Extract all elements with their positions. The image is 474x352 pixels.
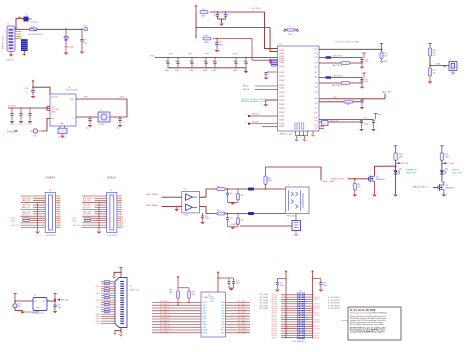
test point TP1 xyxy=(84,25,88,30)
svg-text:VDD33: VDD33 xyxy=(279,88,284,90)
svg-text:VBUS_DET: VBUS_DET xyxy=(330,120,339,122)
svg-text:GPIO08: GPIO08 xyxy=(271,308,277,310)
GPIO left rail junctions xyxy=(285,294,286,332)
svg-text:HDMI_CON: HDMI_CON xyxy=(130,289,140,291)
svg-text:TXP: TXP xyxy=(314,128,317,130)
svg-text:SD_DAT3: SD_DAT3 xyxy=(238,308,246,311)
svg-text:5V: 5V xyxy=(85,25,88,27)
svg-text:VDDIO: VDDIO xyxy=(210,299,216,301)
wire RUN to J5 xyxy=(430,64,449,67)
U4 left wires xyxy=(152,303,201,333)
svg-text:TXP: TXP xyxy=(314,72,317,74)
net label PWR IN 5V xyxy=(3,35,5,49)
svg-text:C44: C44 xyxy=(230,193,233,195)
header J5 xyxy=(449,59,457,74)
net label AUD_PWM1 xyxy=(147,193,159,196)
svg-text:D5: D5 xyxy=(26,14,29,16)
label J7 xyxy=(286,184,297,217)
ground audio ref xyxy=(174,206,179,211)
svg-text:GP8: GP8 xyxy=(221,324,224,326)
power flag osc xyxy=(13,294,17,304)
svg-text:C11: C11 xyxy=(175,60,178,62)
svg-text:GPIO04: GPIO04 xyxy=(271,299,277,301)
svg-text:SDA0: SDA0 xyxy=(11,219,15,222)
svg-text:C16: C16 xyxy=(243,60,246,62)
capacitor C4 xyxy=(215,39,223,50)
svg-text:R40: R40 xyxy=(217,186,220,188)
wire osc cap to ground xyxy=(15,308,25,314)
ground under J1 xyxy=(9,52,14,57)
svg-text:1-1734248-5: 1-1734248-5 xyxy=(46,235,56,237)
U4 right wires xyxy=(226,303,251,333)
svg-text:GPIO22: GPIO22 xyxy=(314,338,320,340)
svg-text:330R: 330R xyxy=(445,156,450,158)
svg-text:EEDO: EEDO xyxy=(243,85,249,87)
svg-text:USB_DM: USB_DM xyxy=(252,114,260,116)
svg-text:PP7: PP7 xyxy=(169,53,173,55)
net label 5V_SYS at U2 xyxy=(8,105,16,107)
ethernet pair RX block xyxy=(319,73,368,89)
net stub ACT_LED xyxy=(442,162,455,165)
svg-text:VDD33: VDD33 xyxy=(279,126,284,128)
ground under C20 xyxy=(31,96,36,98)
usb power block xyxy=(319,114,382,132)
net marker magenta xyxy=(54,299,56,301)
svg-text:D1: D1 xyxy=(68,38,71,40)
svg-text:GPIO21: GPIO21 xyxy=(271,337,277,339)
svg-text:MF-MSMF250/X: MF-MSMF250/X xyxy=(29,34,44,36)
power arrow U4 xyxy=(217,271,220,292)
TVS diode D5 xyxy=(22,17,31,22)
svg-text:VDD33: VDD33 xyxy=(279,66,284,68)
svg-text:100n: 100n xyxy=(205,218,209,220)
wire X1 out xyxy=(47,300,56,302)
HDMI net labels xyxy=(95,286,100,325)
power flag osc out xyxy=(53,294,57,302)
svg-text:5V_SYS: 5V_SYS xyxy=(252,8,261,10)
svg-text:SD_DAT3_R: SD_DAT3_R xyxy=(160,308,170,311)
svg-text:4.7u: 4.7u xyxy=(28,124,32,126)
svg-text:PP9: PP9 xyxy=(205,53,209,55)
svg-text:TXP: TXP xyxy=(314,108,317,110)
label U3 xyxy=(279,44,293,136)
svg-text:100n: 100n xyxy=(236,282,240,284)
svg-text:2.2uH: 2.2uH xyxy=(99,124,104,126)
HDMI ESD resistor pairs xyxy=(104,281,110,313)
svg-text:(SPI_MOSI): (SPI_MOSI) xyxy=(260,308,269,310)
svg-text:RT8020GQW: RT8020GQW xyxy=(66,89,78,91)
label X1 xyxy=(32,295,45,315)
ethernet LED block xyxy=(319,91,392,110)
junction at C1 xyxy=(81,28,83,30)
svg-text:GPIO07: GPIO07 xyxy=(271,306,277,308)
svg-text:3V3: 3V3 xyxy=(150,56,155,58)
svg-text:TXP: TXP xyxy=(314,53,317,55)
svg-text:1K8: 1K8 xyxy=(192,294,195,296)
svg-text:SD_DAT4_R: SD_DAT4_R xyxy=(160,311,170,314)
U4 inner pin names xyxy=(203,296,225,334)
notes link wire xyxy=(341,320,348,322)
net arrow 19M2 xyxy=(57,299,70,302)
wire gate PWR LED xyxy=(348,178,369,180)
svg-text:SD_DAT6_R: SD_DAT6_R xyxy=(160,317,170,320)
svg-text:TXP: TXP xyxy=(314,113,317,115)
connector J4 DISPLAY xyxy=(72,176,123,237)
svg-text:CAM_DP1: CAM_DP1 xyxy=(21,206,30,209)
net labels EEPROM xyxy=(243,85,250,90)
svg-text:TMDS: TMDS xyxy=(95,300,100,302)
svg-text:TRRS JACK: TRRS JACK xyxy=(286,215,297,218)
wire to X1 xyxy=(15,300,33,302)
AV jack J7 box xyxy=(286,187,310,214)
value label MF-MSMF250/X xyxy=(29,34,44,36)
svg-text:15: 15 xyxy=(121,227,123,229)
power arrow R50 R51 xyxy=(177,276,190,288)
wire Q2 drain xyxy=(375,165,397,175)
capacitor C16 xyxy=(243,57,248,72)
svg-text:R41: R41 xyxy=(241,195,244,197)
svg-text:SD_DAT4: SD_DAT4 xyxy=(238,311,246,314)
wire L2 to 3V3 node xyxy=(110,99,127,117)
svg-text:AUD_PWM1: AUD_PWM1 xyxy=(147,193,159,196)
bus entry USB DP xyxy=(245,121,277,124)
svg-text:PWR: PWR xyxy=(377,114,382,116)
svg-text:100n: 100n xyxy=(10,124,14,126)
component under U2 xyxy=(58,126,67,139)
ground under R31 xyxy=(428,76,433,84)
svg-text:GPIO15: GPIO15 xyxy=(271,324,277,326)
svg-text:GP10: GP10 xyxy=(220,330,224,332)
svg-text:SD_DAT7_R: SD_DAT7_R xyxy=(160,319,170,322)
svg-text:100n: 100n xyxy=(175,70,179,72)
op-amp A triangle xyxy=(186,194,197,200)
svg-text:SD_DAT1: SD_DAT1 xyxy=(238,303,246,306)
svg-text:VDD33: VDD33 xyxy=(279,108,284,110)
U3 right inner pin names xyxy=(314,49,317,130)
svg-text:J7: J7 xyxy=(288,184,290,186)
svg-text:100n: 100n xyxy=(58,307,62,309)
svg-text:1K8: 1K8 xyxy=(169,292,172,294)
TVS diode D1 xyxy=(64,29,68,44)
net label 3V3 rail xyxy=(150,56,155,58)
svg-text:DRIVEN EXTERNALLY. NOTE 4: DRIVEN EXTERNALLY. NOTE 4 xyxy=(241,100,267,103)
oscillator X1 box xyxy=(33,298,47,311)
svg-text:TXP: TXP xyxy=(314,57,317,59)
svg-text:C14: C14 xyxy=(212,60,215,62)
net highlight marker xyxy=(270,59,272,64)
U4 right net labels xyxy=(238,300,246,333)
power flag +5V xyxy=(195,5,198,13)
ethernet pair TX block xyxy=(319,53,368,69)
svg-text:RUN: RUN xyxy=(436,64,441,66)
svg-text:TXP: TXP xyxy=(314,120,317,122)
svg-text:DNP: DNP xyxy=(288,34,293,36)
svg-text:VDD33: VDD33 xyxy=(279,96,284,98)
svg-text:10u: 10u xyxy=(84,43,87,45)
svg-text:100n: 100n xyxy=(203,70,207,72)
svg-text:ACT_LED: ACT_LED xyxy=(446,162,454,165)
X1 pin marks xyxy=(34,301,46,310)
svg-text:PP10: PP10 xyxy=(233,53,238,55)
svg-text:10u: 10u xyxy=(18,306,21,308)
svg-text:TXP: TXP xyxy=(314,87,317,89)
resistor array RN1 xyxy=(270,59,278,66)
svg-text:C1: C1 xyxy=(84,39,87,41)
svg-text:ID_SD (GPIO0): ID_SD (GPIO0) xyxy=(328,303,340,305)
wire U2 FB to 3V3 xyxy=(76,98,127,100)
svg-text:OSC_CLK: OSC_CLK xyxy=(61,299,70,301)
capacitor C3 xyxy=(224,12,230,19)
capacitor C15 xyxy=(233,57,238,72)
svg-text:VDD33: VDD33 xyxy=(279,104,284,106)
svg-text:120p: 120p xyxy=(364,124,368,126)
resistor R30 xyxy=(428,48,436,57)
svg-text:DMG1012T: DMG1012T xyxy=(445,188,454,190)
IC U3 box xyxy=(278,46,320,131)
svg-text:SW1: SW1 xyxy=(33,135,37,137)
svg-text:J8: J8 xyxy=(299,291,302,293)
svg-text:GPIO16: GPIO16 xyxy=(271,326,277,328)
svg-text:100n: 100n xyxy=(233,70,237,72)
svg-text:GPIO11: GPIO11 xyxy=(271,315,277,317)
label IC1 xyxy=(183,189,190,216)
wire to jack ring xyxy=(254,188,286,213)
LED D11 xyxy=(440,168,448,174)
op-amp IC1 box xyxy=(182,191,200,213)
svg-text:R40: R40 xyxy=(217,210,220,212)
svg-text:CAM_DP2: CAM_DP2 xyxy=(21,213,30,216)
U4 left net labels xyxy=(160,300,171,333)
resistor R5 xyxy=(203,35,211,44)
svg-text:GP7: GP7 xyxy=(221,321,224,323)
svg-text:SD_DAT10: SD_DAT10 xyxy=(238,328,246,331)
svg-text:C15: C15 xyxy=(233,60,236,62)
svg-text:100n: 100n xyxy=(212,70,216,72)
svg-text:GPIO02: GPIO02 xyxy=(271,295,277,297)
svg-text:GPIO09: GPIO09 xyxy=(314,308,320,310)
svg-text:100R: 100R xyxy=(204,42,209,44)
svg-text:TMDS: TMDS xyxy=(95,314,100,316)
svg-text:PWR IN 5V DC: PWR IN 5V DC xyxy=(3,35,5,49)
wire U3 extra pin xyxy=(262,126,278,128)
svg-text:R41: R41 xyxy=(241,220,244,222)
power flag ACT LED xyxy=(440,146,444,153)
svg-text:ID_SD (GPIO0): ID_SD (GPIO0) xyxy=(328,297,340,299)
audio RC filter right channel xyxy=(217,210,255,229)
wire HDMI top branch xyxy=(112,272,121,278)
label Q3 xyxy=(445,185,454,189)
svg-text:VDD33: VDD33 xyxy=(279,116,284,118)
svg-text:TXP: TXP xyxy=(314,63,317,65)
svg-text:POWER ON: POWER ON xyxy=(406,170,418,172)
svg-text:100n: 100n xyxy=(365,81,369,83)
svg-text:GPIO07: GPIO07 xyxy=(314,304,320,306)
power flag 5V left of J8 xyxy=(285,270,288,339)
connector J1 pin bars xyxy=(9,29,14,49)
svg-text:DSI_GPIO: DSI_GPIO xyxy=(73,225,82,227)
wire cap bank bottom rail xyxy=(168,67,246,69)
label R7 xyxy=(288,26,293,36)
svg-text:SD_DAT0: SD_DAT0 xyxy=(238,300,246,303)
svg-text:GND: GND xyxy=(384,61,389,63)
svg-text:C20: C20 xyxy=(25,88,28,90)
net flag RUN input xyxy=(7,130,18,134)
capacitor C30 at U3 xyxy=(264,71,278,79)
transistor Q3 xyxy=(438,182,444,192)
capacitor C1 xyxy=(80,29,87,51)
svg-text:330R: 330R xyxy=(399,156,404,158)
svg-text:AUDIO_JACK: AUDIO_JACK xyxy=(323,180,336,183)
pushbutton SW1 xyxy=(30,129,41,138)
svg-text:GPIO09: GPIO09 xyxy=(271,310,277,312)
net label 5V_SYS xyxy=(252,8,261,10)
svg-text:DMG1012T: DMG1012T xyxy=(376,179,385,181)
U3 ground pins xyxy=(295,131,308,141)
svg-text:1.5K 1% PULL 49.9R 1% TERM: 1.5K 1% PULL 49.9R 1% TERM xyxy=(335,41,360,43)
GPIO J8 box xyxy=(298,293,305,339)
ground under C1 xyxy=(80,52,85,54)
fuse F1 xyxy=(30,28,38,31)
wire 5V rail to U3 upper xyxy=(196,28,278,52)
svg-text:1-1734248-5: 1-1734248-5 xyxy=(107,235,117,237)
capacitor C at 30 xyxy=(28,107,33,125)
svg-text:D10: D10 xyxy=(399,168,402,170)
svg-text:C10: C10 xyxy=(165,60,168,62)
svg-text:SD_DAT2: SD_DAT2 xyxy=(238,306,246,309)
svg-text:ID_SD (GPIO0): ID_SD (GPIO0) xyxy=(328,308,340,310)
svg-text:3V3: 3V3 xyxy=(84,97,89,99)
svg-text:SD_DAT0_R: SD_DAT0_R xyxy=(160,300,170,303)
svg-text:GP9: GP9 xyxy=(221,327,224,329)
svg-text:100n: 100n xyxy=(219,45,223,47)
junction osc in xyxy=(14,300,16,302)
net label TV_OUT xyxy=(323,180,336,183)
resistor R31 xyxy=(428,68,436,76)
svg-text:CAMERA: CAMERA xyxy=(45,176,55,179)
power flag 5V at C20 xyxy=(32,80,35,91)
wire U3 to 5V column xyxy=(319,48,382,50)
wire LED D10 to ground xyxy=(393,174,398,197)
svg-text:SD_DAT8: SD_DAT8 xyxy=(238,322,246,325)
power flag 3V3 right of J8 xyxy=(311,270,314,339)
svg-text:unconnected if ID EEPROM not r: unconnected if ID EEPROM not required. xyxy=(350,331,385,334)
svg-text:C4: C4 xyxy=(219,41,221,43)
svg-text:(SPI_MOSI): (SPI_MOSI) xyxy=(260,297,269,299)
svg-text:DSI_DP2: DSI_DP2 xyxy=(83,214,91,216)
svg-text:1u: 1u xyxy=(26,92,28,94)
svg-text:SD_DAT5: SD_DAT5 xyxy=(238,314,246,317)
wire Q3 source ground xyxy=(442,192,447,197)
svg-text:GPIO19: GPIO19 xyxy=(271,333,277,335)
svg-text:D-: D- xyxy=(246,114,248,116)
svg-text:GP0: GP0 xyxy=(221,302,224,304)
wire LED D11 to Q3 xyxy=(441,174,443,182)
wire AUD_PWM0 xyxy=(162,206,182,208)
power flag ext5V xyxy=(380,43,384,50)
comment POWER ON PWR LED xyxy=(406,170,418,175)
svg-text:PP8: PP8 xyxy=(188,53,192,55)
wire fuse to node VIN xyxy=(37,28,82,30)
wire EEDO xyxy=(255,85,278,87)
svg-text:SD_DAT11: SD_DAT11 xyxy=(238,330,246,333)
svg-text:19.2MHZ OSC: 19.2MHZ OSC xyxy=(32,313,45,315)
svg-text:J1: J1 xyxy=(7,24,10,26)
wire R33 to LED D10 xyxy=(395,160,397,170)
svg-text:R7: R7 xyxy=(289,26,291,28)
svg-text:GP4: GP4 xyxy=(221,313,224,315)
svg-text:IC1: IC1 xyxy=(184,189,187,191)
capacitor C11 xyxy=(175,57,180,72)
notes box text xyxy=(350,310,387,334)
U3 exposed pad array xyxy=(294,123,304,130)
svg-text:VDD33: VDD33 xyxy=(279,85,284,87)
resistor R4 xyxy=(200,9,208,18)
capacitor C23 xyxy=(116,116,122,129)
svg-text:TXP: TXP xyxy=(314,77,317,79)
ground cap bank xyxy=(244,68,249,73)
svg-text:EECLK: EECLK xyxy=(243,89,250,91)
wire cap pair join xyxy=(218,19,226,23)
ground under shield xyxy=(22,51,26,56)
wire opamp B out xyxy=(200,207,218,214)
svg-text:VDD33: VDD33 xyxy=(279,58,284,60)
capacitor pair U4 xyxy=(218,278,240,291)
svg-text:OUT: OUT xyxy=(42,301,45,303)
capacitor C60 electrolytic xyxy=(13,304,21,309)
svg-text:GPIO10: GPIO10 xyxy=(271,313,277,315)
svg-text:D+: D+ xyxy=(245,122,247,124)
svg-text:SD_DAT9_R: SD_DAT9_R xyxy=(160,325,170,328)
svg-text:VDD33: VDD33 xyxy=(279,112,284,114)
svg-text:C52: C52 xyxy=(364,118,367,120)
U3 ground arrow xyxy=(311,131,314,136)
capacitor C31 bypass xyxy=(200,213,209,224)
svg-text:SD_DAT10_R: SD_DAT10_R xyxy=(160,328,171,331)
capacitor C14 xyxy=(212,57,217,72)
svg-text:GPIO11: GPIO11 xyxy=(314,313,320,315)
capacitor C at 12 xyxy=(10,107,15,125)
svg-text:GPIO15: GPIO15 xyxy=(314,322,320,324)
svg-text:GP1: GP1 xyxy=(221,305,224,307)
resistor R51 xyxy=(188,288,195,298)
svg-text:VDD33: VDD33 xyxy=(279,53,284,55)
svg-text:VOUT: VOUT xyxy=(70,99,75,101)
svg-text:GPIO05: GPIO05 xyxy=(271,301,277,303)
label U4 xyxy=(204,294,210,299)
wire 5V vertical xyxy=(195,12,197,39)
svg-text:AUD_PWM0: AUD_PWM0 xyxy=(147,204,159,207)
svg-text:PG_VIN: PG_VIN xyxy=(52,96,59,98)
svg-text:USB_DP: USB_DP xyxy=(252,121,260,123)
AV jack contacts xyxy=(289,190,304,211)
resistor R7 with port flags xyxy=(283,28,299,31)
capacitor C at 21 xyxy=(19,107,24,125)
svg-text:TMDS: TMDS xyxy=(95,321,100,323)
resistor R33 xyxy=(394,153,403,161)
wire cap bank top rail to U3 xyxy=(155,57,278,59)
wire U2 LX to L2 xyxy=(76,116,98,118)
wire J1 to fuse F1 xyxy=(15,28,30,30)
svg-text:SD_DAT7: SD_DAT7 xyxy=(238,319,246,322)
net label STATUS_LED_N xyxy=(413,185,435,188)
wire HDMI bottom xyxy=(119,328,122,337)
wire gate ACT xyxy=(434,187,438,189)
label F1 xyxy=(32,26,35,28)
svg-text:TS482: TS482 xyxy=(183,215,190,217)
svg-text:TXP: TXP xyxy=(314,98,317,100)
IC U4 box xyxy=(201,292,226,337)
svg-text:3V3: 3V3 xyxy=(120,97,125,99)
